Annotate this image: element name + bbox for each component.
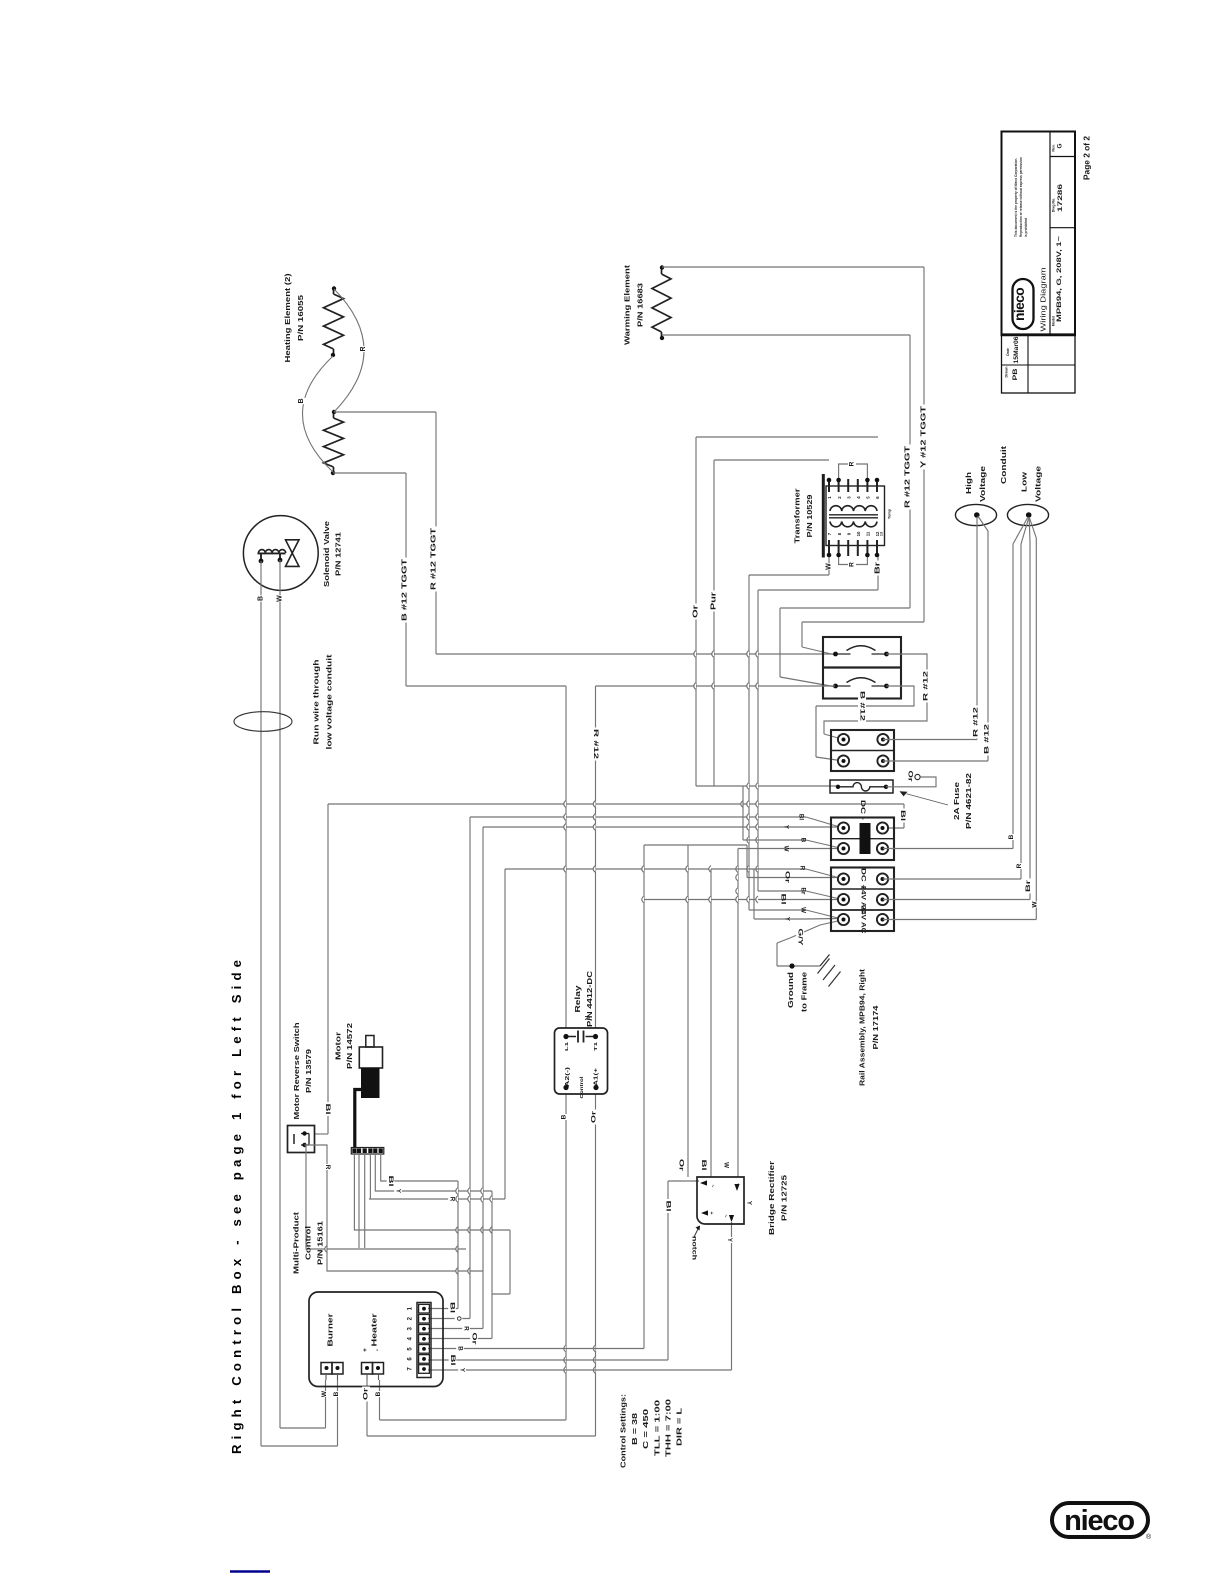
- wire Or fuse to connector circle: [886, 777, 936, 787]
- bridge terminal - top-right: [734, 1184, 739, 1191]
- svg-text:Or: Or: [784, 871, 791, 884]
- svg-text:Warming Element: Warming Element: [623, 264, 632, 345]
- svg-text:~: ~: [709, 1185, 715, 1188]
- svg-text:Bl: Bl: [798, 814, 805, 820]
- wire W from solenoid to burner terminal: [279, 560, 281, 1428]
- svg-text:notch: notch: [691, 1236, 698, 1260]
- svg-text:W: W: [723, 1162, 730, 1168]
- transformer box: [826, 486, 885, 546]
- svg-text:R #12 TGGT: R #12 TGGT: [905, 445, 912, 508]
- bridge terminal + bottom-left: [701, 1210, 708, 1215]
- svg-text:Pur: Pur: [711, 592, 718, 610]
- svg-text:Model: Model: [1052, 316, 1056, 326]
- wire Y feed DC- row1: [483, 826, 840, 828]
- motor body: [359, 1047, 382, 1068]
- wire Br DC+ row2 to low voltage conduit: [883, 899, 1030, 901]
- title block outer box: [1002, 132, 1076, 335]
- thermostat cell2 contacts: [835, 685, 851, 687]
- svg-text:24V AC: 24V AC: [860, 906, 867, 935]
- svg-text:-: -: [374, 1349, 381, 1351]
- wire B #12 TGGT from heating elements to relay L1: [333, 472, 406, 474]
- svg-text:Br: Br: [1025, 879, 1032, 892]
- wire B #12 thermostat cell2 to terminal block: [816, 686, 914, 706]
- transformer core lines: [829, 514, 878, 516]
- svg-text:B: B: [457, 1346, 464, 1351]
- svg-text:+: +: [362, 1348, 369, 1352]
- svg-text:Or: Or: [471, 1333, 478, 1346]
- svg-text:B #12: B #12: [984, 723, 991, 754]
- svg-text:®: ®: [1146, 1533, 1152, 1541]
- svg-text:B = 38: B = 38: [630, 1413, 639, 1445]
- svg-text:nieco: nieco: [1064, 1505, 1134, 1537]
- svg-text:O: O: [455, 1316, 462, 1321]
- svg-text:B: B: [800, 838, 807, 843]
- svg-text:Burner: Burner: [326, 1313, 335, 1346]
- svg-text:Dwg No.: Dwg No.: [1052, 198, 1056, 212]
- svg-text:R: R: [360, 346, 367, 351]
- wire Or relay A1 to heater: [595, 1094, 597, 1436]
- multi-product control box: [309, 1292, 443, 1387]
- wire Or to bridge rectifier: [687, 845, 689, 1177]
- transformer primary coil: [830, 506, 877, 511]
- svg-text:15Mar06: 15Mar06: [1014, 336, 1020, 364]
- DC+ block: [831, 868, 894, 932]
- relay control terminals: [563, 1085, 568, 1090]
- svg-text:is prohibited: is prohibited: [1024, 218, 1028, 237]
- svg-text:MPB94, G, 208V, 1~: MPB94, G, 208V, 1~: [1056, 236, 1063, 322]
- wire Y #12 TGGT from warming element to thermostat cell1: [662, 266, 924, 268]
- transformer top jumper R pins 2-5: [839, 464, 868, 480]
- solenoid valve bowtie symbol: [286, 540, 300, 567]
- svg-text:Or: Or: [693, 605, 700, 618]
- svg-text:nieco: nieco: [1012, 288, 1027, 321]
- svg-text:R #12 TGGT: R #12 TGGT: [431, 527, 438, 590]
- svg-text:G: G: [1057, 143, 1064, 148]
- bridge rectifier box P/N 12725: [697, 1177, 744, 1224]
- svg-text:Date: Date: [1006, 348, 1010, 356]
- svg-text:Br: Br: [800, 888, 807, 895]
- svg-text:DIR = L: DIR = L: [675, 1407, 684, 1446]
- svg-text:W: W: [321, 1390, 328, 1397]
- wire crossing hops in control nest: [456, 1188, 458, 1195]
- wire control pin7 Y to bridge rectifier: [428, 1369, 732, 1371]
- svg-text:Temp: Temp: [888, 508, 892, 519]
- wire G/Y ground feed DC+ row3: [777, 921, 840, 944]
- title block divider date-drawn: [1027, 335, 1029, 394]
- wire Or from transformer pin6 to fuse: [696, 436, 878, 438]
- transformer mounting bar: [822, 474, 825, 558]
- svg-text:13: 13: [880, 532, 884, 536]
- wire control pin2 O: [469, 817, 471, 1319]
- svg-text:Bl: Bl: [449, 1355, 456, 1366]
- wire control pin3 R: [482, 827, 484, 1329]
- svg-text:W: W: [1032, 901, 1039, 908]
- svg-text:R: R: [324, 1165, 331, 1170]
- svg-text:Conduit: Conduit: [999, 445, 1008, 484]
- svg-text:Bl: Bl: [449, 1302, 456, 1313]
- heating element resistor R-upper: [324, 294, 344, 349]
- low voltage conduit ellipse marker: [234, 712, 292, 732]
- svg-text:Relay: Relay: [573, 984, 582, 1012]
- svg-text:11: 11: [866, 531, 871, 536]
- svg-text:to Frame: to Frame: [800, 972, 809, 1012]
- svg-text:P/N 15161: P/N 15161: [316, 1221, 325, 1265]
- bridge terminal ~ bottom-right: [729, 1215, 734, 1222]
- transformer secondary coil: [830, 522, 877, 527]
- svg-text:P/N 16055: P/N 16055: [296, 295, 305, 341]
- wire B relay A2 to heater: [565, 1094, 567, 1420]
- svg-text:R: R: [799, 866, 806, 871]
- motor lower body black: [361, 1068, 380, 1098]
- svg-text:Control: Control: [579, 1077, 584, 1099]
- wire R DC+ row1 to low voltage conduit: [883, 878, 1021, 880]
- svg-text:Page 2 of 2: Page 2 of 2: [1082, 136, 1092, 180]
- svg-text:Low: Low: [1020, 472, 1029, 492]
- svg-text:Control Settings:: Control Settings:: [619, 1394, 628, 1468]
- connector circle Or: [915, 774, 920, 779]
- svg-text:Heating Element (2): Heating Element (2): [283, 273, 292, 363]
- svg-text:Bl: Bl: [665, 1201, 672, 1212]
- svg-text:Drawn: Drawn: [1005, 367, 1009, 378]
- svg-text:+: +: [708, 1212, 714, 1215]
- svg-text:R #12: R #12: [592, 729, 599, 760]
- thermostat switch box pair: [823, 637, 901, 699]
- wire Br from transformer pin13 to DC+ 24VAC: [877, 556, 879, 590]
- svg-text:Bl: Bl: [324, 1104, 331, 1115]
- svg-text:B: B: [298, 398, 305, 403]
- wire Pur from transformer pin1: [714, 459, 829, 461]
- svg-text:Ground: Ground: [786, 971, 795, 1008]
- wire motor w6 Bl: [381, 1154, 458, 1181]
- svg-text:THH = 7:00: THH = 7:00: [664, 1399, 673, 1457]
- wire Bl to bridge rectifier: [710, 869, 712, 1177]
- svg-text:A1(+: A1(+: [594, 1068, 600, 1086]
- wire control pin5 B to junction: [428, 1348, 644, 1350]
- svg-text:High: High: [964, 471, 973, 494]
- svg-text:A2(-): A2(-): [565, 1067, 571, 1087]
- title block divider main: [1049, 132, 1051, 335]
- svg-text:Bridge Rectifier: Bridge Rectifier: [767, 1161, 776, 1235]
- wire R #12 TGGT from heating elements to thermostat: [334, 411, 436, 413]
- svg-text:R: R: [449, 1197, 456, 1202]
- svg-text:B: B: [333, 1391, 340, 1396]
- wire R from motor reverse switch to control pin3 riser: [306, 1145, 466, 1249]
- svg-text:~: ~: [722, 1215, 728, 1218]
- wire Bl long horizontal to motor reverse switch: [328, 803, 904, 805]
- transformer pins bottom 7-13: [828, 540, 830, 556]
- svg-text:Transformer: Transformer: [793, 488, 802, 543]
- relay box P/N 4412-DC: [555, 1028, 608, 1094]
- wire W feed DC- row2 and bridge rectifier: [738, 848, 840, 850]
- svg-text:Bl: Bl: [899, 810, 906, 821]
- 7-pin connector: [417, 1303, 431, 1378]
- solenoid coil: [258, 552, 286, 554]
- svg-text:B: B: [561, 1114, 568, 1119]
- wire R #12 TGGT from warming element to thermostat cell2: [662, 334, 910, 336]
- wire relay L1 vertical: [565, 686, 567, 1028]
- wire B DC- row2 to low voltage conduit: [883, 848, 1013, 850]
- svg-text:L1: L1: [564, 1041, 569, 1051]
- warming element resistor: [652, 274, 671, 332]
- terminal block 4-screw: [831, 730, 894, 771]
- wire control pin1 Bl: [457, 1181, 459, 1309]
- wire Or feed DC+ row1: [746, 845, 748, 878]
- svg-text:B: B: [375, 1391, 382, 1396]
- ground chassis symbol: [820, 955, 830, 967]
- svg-text:B #12: B #12: [859, 691, 866, 722]
- wire R #12 terminal block to high voltage conduit: [883, 739, 977, 741]
- svg-text:This document is the property: This document is the property of Nieco C…: [1014, 158, 1018, 237]
- svg-text:Rail Assembly, MPB94, Right: Rail Assembly, MPB94, Right: [858, 968, 867, 1086]
- blue footer line: [230, 1570, 270, 1573]
- svg-text:T1: T1: [593, 1041, 598, 1051]
- wire arc R between heating elements: [334, 289, 364, 412]
- svg-text:B #12 TGGT: B #12 TGGT: [402, 558, 409, 621]
- svg-text:Heater: Heater: [370, 1313, 379, 1346]
- svg-text:2A Fuse: 2A Fuse: [952, 782, 961, 820]
- svg-text:C = 450: C = 450: [641, 1409, 650, 1449]
- heating element resistor R-lower: [324, 418, 344, 467]
- svg-text:R: R: [849, 562, 856, 567]
- fuse callout arrow: [907, 794, 949, 805]
- svg-text:P/N 17174: P/N 17174: [871, 1004, 880, 1049]
- svg-text:P/N 14572: P/N 14572: [345, 1023, 354, 1069]
- motor cable thick: [355, 1090, 361, 1149]
- svg-text:R #12: R #12: [923, 670, 930, 701]
- DC- block: [831, 818, 894, 861]
- wire control pin6 Bl to bridge rectifier: [428, 1359, 668, 1361]
- nieco logo small title block: [1012, 279, 1033, 329]
- svg-text:P/N 10529: P/N 10529: [805, 495, 814, 538]
- transformer bottom jumper R pins 8-11: [839, 555, 868, 565]
- wire control pin4 Or: [491, 1191, 493, 1339]
- transformer pins top 1-6: [828, 479, 830, 492]
- wire motor w3: [364, 1154, 366, 1248]
- svg-text:R #12: R #12: [973, 706, 980, 737]
- wire motor w4 R: [369, 1154, 371, 1199]
- svg-text:Voltage: Voltage: [978, 466, 987, 502]
- fuse 2A holder: [830, 780, 893, 793]
- thermostat cell1 contacts: [835, 653, 851, 655]
- svg-text:Solenoid Valve: Solenoid Valve: [322, 521, 331, 587]
- svg-text:B: B: [258, 596, 265, 601]
- high voltage conduit ellipse: [955, 504, 996, 525]
- svg-text:Rev.: Rev.: [1052, 144, 1056, 151]
- svg-text:R: R: [463, 1326, 470, 1331]
- svg-text:Wiring Diagram: Wiring Diagram: [1041, 267, 1048, 331]
- wire motor w5 Y: [375, 1154, 492, 1191]
- relay contact L1-T1: [577, 1031, 579, 1043]
- svg-text:P/N 12741: P/N 12741: [334, 532, 343, 576]
- svg-text:P/N 13579: P/N 13579: [304, 1049, 313, 1093]
- motor connector strip: [351, 1148, 384, 1155]
- svg-text:Control: Control: [304, 1226, 313, 1260]
- svg-text:Or: Or: [591, 1110, 598, 1123]
- svg-text:Multi-Product: Multi-Product: [292, 1211, 301, 1274]
- solenoid valve circle: [243, 516, 318, 591]
- svg-text:DC -: DC -: [859, 800, 866, 820]
- wire motor w2: [358, 1154, 360, 1248]
- svg-text:10: 10: [856, 531, 861, 536]
- svg-text:Motor: Motor: [334, 1032, 343, 1060]
- svg-text:Br: Br: [875, 562, 882, 574]
- motor reverse switch contacts: [293, 1134, 295, 1144]
- svg-text:Voltage: Voltage: [1034, 466, 1043, 502]
- wire B #12 terminal block to high voltage conduit: [883, 760, 988, 762]
- nieco logo footer: [1052, 1503, 1148, 1537]
- svg-text:G/Y: G/Y: [797, 929, 804, 947]
- wire Bl DC- row1 riser: [903, 804, 905, 828]
- svg-text:B: B: [1008, 834, 1015, 839]
- svg-text:low voltage conduit: low voltage conduit: [325, 654, 334, 750]
- bridge terminal ~ top-left: [700, 1180, 707, 1185]
- svg-text:Y #12 TGGT: Y #12 TGGT: [921, 405, 928, 468]
- svg-text:P/N 16683: P/N 16683: [636, 283, 645, 327]
- svg-text:W: W: [826, 563, 833, 570]
- svg-text:PB: PB: [1012, 368, 1019, 380]
- wire arc B between heating elements: [303, 356, 334, 472]
- wire ground to frame: [777, 965, 820, 967]
- svg-text:Run wire through: Run wire through: [312, 659, 321, 745]
- wire R #12 thermostat cell1 to terminal block: [824, 654, 927, 734]
- svg-text:17286: 17286: [1057, 183, 1064, 212]
- wire Bl feed DC+ row2: [644, 899, 840, 901]
- svg-text:Or: Or: [907, 771, 914, 783]
- title block lower box drawn-date: [1002, 335, 1076, 394]
- wire Y feed DC+ row3: [753, 869, 755, 919]
- svg-text:W: W: [277, 595, 284, 602]
- svg-text:P/N 4412-DC: P/N 4412-DC: [585, 970, 594, 1027]
- wire R long horizontal DC+ row1 to motor: [505, 868, 806, 870]
- svg-text:Or: Or: [363, 1387, 370, 1400]
- wire W from transformer pin7 to DC+ 24VAC: [828, 556, 830, 575]
- svg-text:R: R: [1016, 863, 1023, 868]
- svg-text:TLL = 1:00: TLL = 1:00: [653, 1400, 662, 1456]
- motor reverse switch box: [288, 1126, 315, 1153]
- svg-text:P/N 12725: P/N 12725: [780, 1175, 789, 1221]
- wire B from solenoid to burner terminal: [260, 561, 262, 1446]
- wire B feed DC- row2: [742, 786, 744, 840]
- wire Bl feed DC- row1: [470, 816, 806, 818]
- svg-text:Bl: Bl: [387, 1176, 394, 1187]
- wire motor w1 to loop: [354, 1154, 510, 1230]
- wire relay T1 vertical R #12: [596, 685, 836, 687]
- svg-text:Motor Reverse Switch: Motor Reverse Switch: [292, 1022, 301, 1120]
- svg-text:W: W: [800, 907, 807, 913]
- svg-text:Or: Or: [678, 1159, 685, 1172]
- svg-text:P/N 4621-82: P/N 4621-82: [964, 773, 973, 829]
- svg-text:Reproduction or release withou: Reproduction or release without express …: [1019, 157, 1023, 237]
- svg-text:R: R: [849, 461, 856, 466]
- low voltage conduit ellipse: [1007, 504, 1048, 525]
- wire W DC+ row3 to low voltage conduit: [883, 919, 1036, 921]
- svg-text:Bl: Bl: [700, 1160, 707, 1171]
- svg-text:Bl: Bl: [780, 894, 787, 905]
- svg-text:W: W: [783, 846, 790, 852]
- motor shaft: [366, 1036, 374, 1048]
- title block divider dwg-rev: [1050, 156, 1075, 158]
